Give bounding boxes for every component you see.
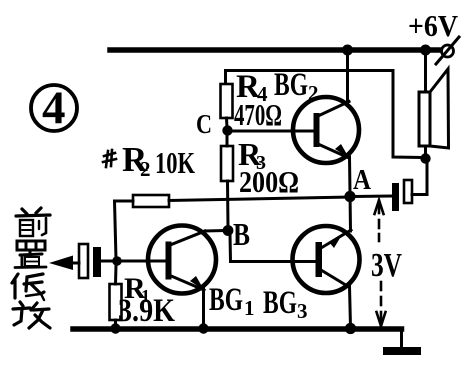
- resistor R2: [133, 195, 169, 207]
- label di chinese character: [12, 274, 44, 300]
- svg-text:200Ω: 200Ω: [239, 164, 299, 199]
- transistor BG1: [148, 226, 216, 294]
- transistor BG3: [293, 226, 360, 293]
- node speaker bottom junction dot: [420, 153, 430, 163]
- node BG1 base junction dot: [112, 256, 122, 266]
- wire top +6V bus: [110, 47, 440, 53]
- measurement arrow 3V top: [375, 200, 384, 241]
- input arrow to preamp: [49, 256, 79, 271]
- wire ground bus: [73, 326, 402, 332]
- wire R2 left down to input node: [115, 201, 134, 259]
- wire base node to BG1 base: [121, 260, 166, 263]
- capacitor input coupling positive plate: [93, 247, 101, 277]
- wire bootstrap line R4 top to speaker bottom: [226, 71, 422, 158]
- wire node B to BG3 base: [230, 234, 316, 262]
- wire BG3 collector to node A: [349, 193, 353, 231]
- wire BG1 collector to node B: [205, 229, 224, 233]
- svg-text:470Ω: 470Ω: [234, 97, 282, 132]
- wire base node down to R1: [114, 265, 118, 284]
- wire node C to R3: [226, 133, 229, 146]
- capacitor input coupling negative plate: [79, 244, 88, 278]
- wire BG3 emitter to ground bus: [350, 286, 351, 327]
- wire output cap to speaker bottom: [412, 162, 427, 195]
- capacitor output coupling positive plate: [392, 183, 399, 211]
- node R1 ground junction dot: [110, 323, 120, 333]
- resistor R4: [221, 84, 233, 118]
- wire speaker top to bus: [424, 50, 427, 92]
- ground: [383, 347, 421, 355]
- wire BG1 emitter to ground bus: [202, 289, 205, 327]
- svg-text:4: 4: [42, 82, 66, 134]
- svg-text:1: 1: [244, 296, 255, 320]
- node junction dot on bus at BG2 collector: [342, 45, 353, 56]
- svg-text:A: A: [353, 165, 372, 196]
- label zhi chinese character: [15, 241, 46, 268]
- node BG1 emitter ground junction dot: [198, 323, 208, 333]
- wire R2 right to node A: [169, 197, 350, 201]
- svg-text:2: 2: [140, 157, 151, 181]
- measurement arrow 3V bottom: [377, 282, 386, 326]
- svg-text:3: 3: [297, 299, 308, 323]
- capacitor output coupling negative plate: [404, 180, 412, 203]
- wire ground bus to ground symbol: [400, 330, 403, 349]
- node junction dot on bus at speaker branch: [420, 45, 431, 56]
- wire BG2 emitter to node A: [348, 157, 352, 193]
- wire input cap to base node: [101, 260, 113, 263]
- label mark before R2: [103, 150, 116, 167]
- wire node C to BG2 base: [231, 130, 314, 133]
- resistor R3: [221, 146, 233, 181]
- label fang chinese character: [13, 302, 50, 328]
- speaker: [419, 69, 449, 148]
- transistor BG2: [293, 97, 359, 163]
- figure number circled 4: [31, 82, 77, 134]
- svg-text:10K: 10K: [155, 145, 195, 180]
- wire R1 bottom to ground bus: [114, 320, 117, 327]
- svg-text:B: B: [233, 216, 250, 252]
- node A junction dot: [344, 191, 355, 202]
- wire node A to output capacitor: [354, 195, 392, 199]
- wire BG2 collector to bus: [346, 50, 349, 104]
- label qian chinese character: [16, 208, 50, 236]
- wire speaker bottom stub: [424, 146, 427, 157]
- power terminal +6V circle with slash: [436, 37, 459, 64]
- svg-text:3.9K: 3.9K: [118, 293, 175, 329]
- node BG3 emitter ground junction dot: [345, 323, 356, 334]
- node B junction dot: [223, 225, 234, 236]
- wire R3 bottom to node B: [226, 181, 230, 228]
- svg-text:BG: BG: [209, 282, 243, 318]
- svg-text:C: C: [196, 109, 212, 139]
- svg-text:3V: 3V: [371, 247, 402, 284]
- wire R4 bottom to node C: [225, 118, 229, 128]
- node C junction dot: [222, 125, 232, 135]
- svg-text:BG: BG: [263, 285, 297, 321]
- resistor R1: [110, 284, 122, 320]
- svg-text:+6V: +6V: [408, 8, 459, 43]
